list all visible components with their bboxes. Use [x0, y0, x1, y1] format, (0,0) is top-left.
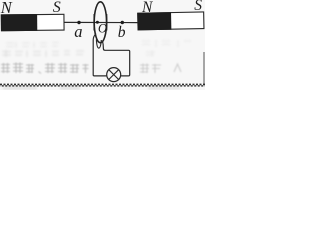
- svg-text:S: S: [53, 0, 61, 16]
- coil side emphasis left: [93, 14, 95, 31]
- dashed separator line (row 1): [0, 83, 205, 85]
- svg-text:N: N: [141, 0, 154, 16]
- faint bleed-through text below dashed line: [3, 87, 180, 90]
- node O (dot, coil centre): [96, 21, 99, 24]
- wire: coil left lead down to lamp loop: [93, 34, 107, 76]
- faint bleed-through text left: [1, 63, 89, 74]
- faint ghost text row mid-left: [2, 50, 84, 57]
- svg-text:a: a: [74, 22, 82, 41]
- svg-text:O: O: [98, 22, 107, 36]
- right magnet N pole (black): [137, 12, 171, 30]
- left magnet N pole (black): [1, 14, 37, 31]
- node a (dot): [77, 21, 80, 24]
- wire: coil lead U-loop below coil: [96, 40, 101, 49]
- lamp L1 (circle): [107, 68, 121, 82]
- svg-text:N: N: [0, 0, 13, 17]
- faint bleed-through text right: [140, 64, 181, 74]
- faint ghost text row upper-left: [6, 42, 59, 48]
- faint ghost text upper-right: [142, 40, 191, 57]
- dashed separator line (row 2): [0, 85, 205, 87]
- svg-text:S: S: [194, 0, 202, 14]
- bleed-through vertical rule at right edge: [203, 52, 205, 84]
- wire: coil right lead to right side of loop: [102, 41, 129, 76]
- left magnet body: [1, 14, 64, 31]
- lamp X cross: [109, 70, 119, 80]
- node b (dot): [121, 21, 124, 24]
- svg-text:b: b: [118, 24, 126, 41]
- wire: axis from left magnet through coil to right magnet: [64, 21, 138, 23]
- right magnet body: [137, 11, 204, 30]
- coil (ellipse): [94, 2, 106, 43]
- coil side emphasis right: [106, 14, 108, 31]
